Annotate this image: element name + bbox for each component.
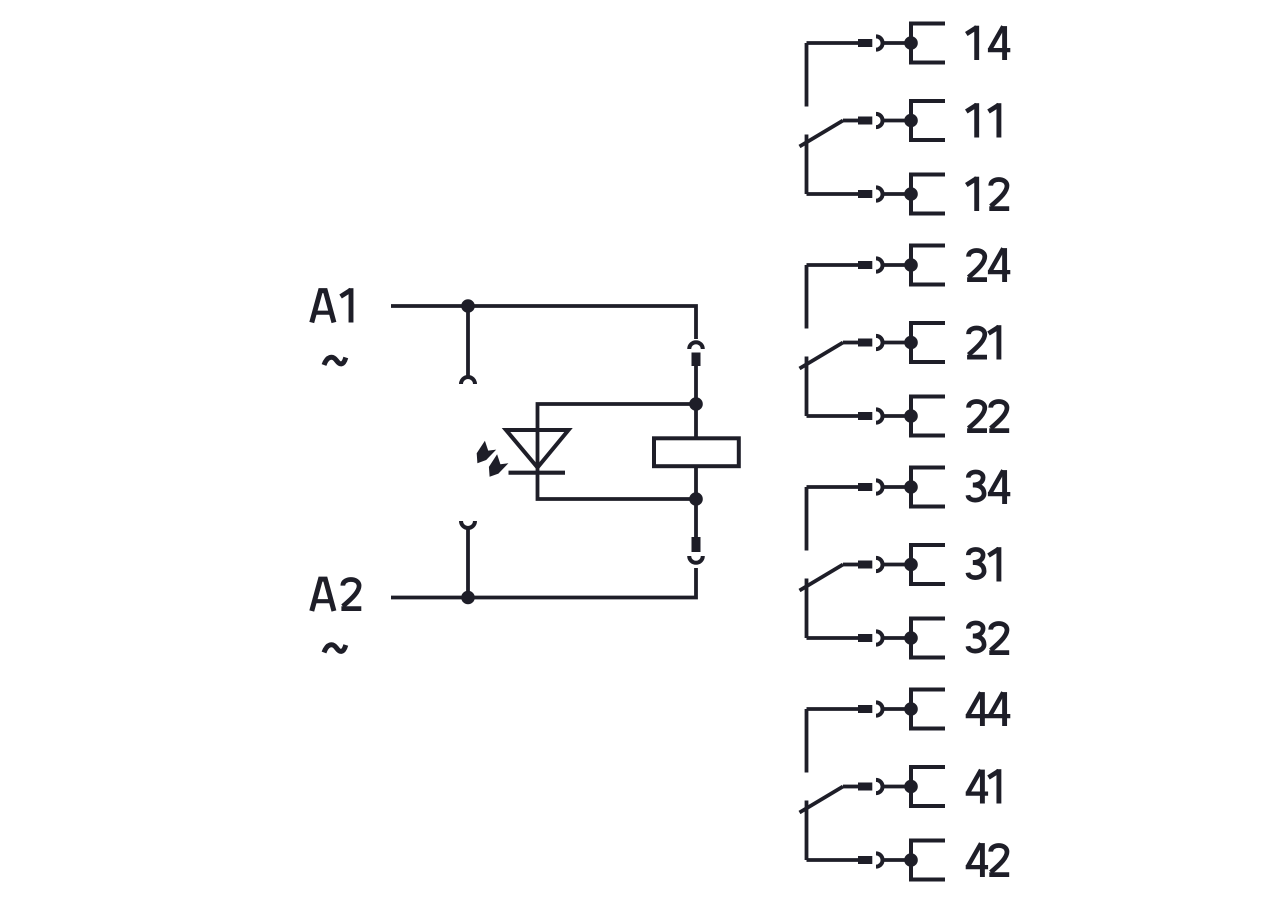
plug pin terminal 34 — [858, 483, 872, 491]
terminal bracket 42 — [911, 841, 945, 880]
terminal label A1 — [312, 288, 351, 322]
plug-in socket symbol (A1 base side) — [461, 377, 475, 384]
contact group 41: common-to-NC vertical wire — [805, 801, 809, 861]
socket terminal 12 — [876, 187, 883, 200]
terminal bracket 14 — [911, 24, 945, 63]
plug pin terminal 42 — [858, 856, 872, 864]
wire socket to junction 34 — [883, 485, 911, 489]
contact group 31: common-to-NC vertical wire — [805, 579, 809, 639]
contact group 21: NO branch stub wire — [805, 265, 809, 329]
wire bottom node to pin — [694, 499, 698, 537]
terminal label 22 — [967, 401, 1009, 430]
junction dot on A2 wire — [461, 591, 475, 605]
wire terminal 42 — [807, 858, 859, 862]
contact group 11: NO branch stub wire — [805, 43, 809, 107]
plug-in pin (coil circuit bottom) — [692, 537, 701, 552]
wire terminal 41 — [843, 785, 858, 789]
plug pin terminal 32 — [858, 634, 872, 642]
junction dot terminal 12 — [904, 187, 918, 201]
wire terminal 34 — [807, 485, 859, 489]
plug-in pin (coil circuit top) — [692, 353, 701, 367]
wire socket to junction 14 — [883, 41, 911, 45]
wire socket to junction 11 — [883, 119, 911, 123]
plug pin terminal 12 — [858, 190, 872, 198]
AC symbol ~ under A2 — [324, 645, 346, 653]
wire terminal 22 — [807, 414, 859, 418]
socket terminal 14 — [876, 36, 883, 49]
junction dot terminal 22 — [904, 409, 918, 423]
wire pin to top node — [694, 366, 698, 404]
socket terminal 21 — [876, 336, 883, 349]
contact group 11: movable contact arm — [800, 121, 844, 147]
wire socket to junction 21 — [883, 341, 911, 345]
wire terminal 44 — [807, 707, 859, 711]
junction dot terminal 32 — [904, 631, 918, 645]
socket terminal 34 — [876, 480, 883, 493]
socket terminal 44 — [876, 702, 883, 715]
socket terminal 24 — [876, 258, 883, 271]
wire terminal 11 — [843, 119, 858, 123]
plug pin terminal 31 — [858, 561, 872, 569]
terminal label 44 — [966, 692, 1011, 726]
wire LED branch loop — [538, 404, 697, 499]
plug pin terminal 22 — [858, 412, 872, 420]
socket terminal 41 — [876, 780, 883, 793]
terminal label 11 — [966, 103, 999, 137]
terminal label 42 — [966, 843, 1010, 877]
terminal label 24 — [967, 248, 1010, 282]
wire terminal 14 — [807, 41, 859, 45]
junction dot terminal 31 — [904, 558, 918, 572]
wire socket to junction 24 — [883, 263, 911, 267]
junction node bottom — [689, 492, 703, 506]
wire terminal 32 — [807, 636, 859, 640]
wire socket to junction 22 — [883, 414, 911, 418]
terminal bracket 22 — [911, 397, 945, 436]
wire terminal 24 — [807, 263, 859, 267]
terminal label 41 — [966, 769, 999, 803]
contact group 31: movable contact arm — [800, 565, 844, 591]
wire terminal 21 — [843, 341, 858, 345]
socket terminal 11 — [876, 114, 883, 127]
wire terminal 12 — [807, 192, 859, 196]
terminal label 31 — [968, 547, 999, 581]
terminal bracket 44 — [911, 690, 945, 729]
contact group 21: common-to-NC vertical wire — [805, 357, 809, 417]
wire stub A2 to base contact — [466, 528, 470, 598]
socket terminal 42 — [876, 853, 883, 866]
wire A1 to coil plug-in — [391, 306, 696, 339]
terminal bracket 12 — [911, 175, 945, 214]
contact group 11: common-to-NC vertical wire — [805, 135, 809, 195]
terminal bracket 34 — [911, 468, 945, 507]
AC symbol ~ under A1 — [324, 357, 346, 365]
wire A2 to coil plug-in — [391, 568, 696, 598]
junction dot terminal 24 — [904, 258, 918, 272]
wire through coil — [694, 404, 698, 499]
socket terminal 31 — [876, 558, 883, 571]
plug-in socket symbol (A2 base side) — [461, 521, 475, 528]
wire socket to junction 12 — [883, 192, 911, 196]
plug pin terminal 11 — [858, 117, 872, 125]
wire socket to junction 31 — [883, 563, 911, 567]
LED cathode bar — [509, 471, 566, 475]
terminal bracket 11 — [911, 101, 945, 140]
junction dot terminal 11 — [904, 114, 918, 128]
LED triangle (anode) — [506, 430, 569, 468]
terminal bracket 24 — [911, 246, 945, 285]
junction dot terminal 21 — [904, 336, 918, 350]
terminal bracket 21 — [911, 323, 945, 362]
terminal bracket 32 — [911, 619, 945, 658]
plug pin terminal 24 — [858, 261, 872, 269]
terminal label 32 — [968, 623, 1009, 653]
socket terminal 22 — [876, 409, 883, 422]
contact group 31: NO branch stub wire — [805, 487, 809, 551]
junction dot terminal 41 — [904, 780, 918, 794]
junction dot terminal 42 — [904, 853, 918, 867]
wire socket to junction 32 — [883, 636, 911, 640]
wire socket to junction 42 — [883, 858, 911, 862]
plug pin terminal 41 — [858, 783, 872, 791]
contact group 41: movable contact arm — [800, 787, 844, 813]
plug-in socket symbol (coil circuit bottom) — [689, 556, 703, 563]
wire socket to junction 41 — [883, 785, 911, 789]
junction dot terminal 34 — [904, 480, 918, 494]
terminal bracket 41 — [911, 767, 945, 806]
socket terminal 32 — [876, 631, 883, 644]
terminal label 12 — [966, 177, 1009, 211]
plug pin terminal 44 — [858, 705, 872, 713]
terminal label 34 — [968, 470, 1010, 504]
wire stub A1 to base contact — [466, 306, 470, 377]
LED light arrow 1 — [477, 441, 497, 464]
plug-in socket symbol (coil circuit top) — [689, 342, 703, 349]
contact group 21: movable contact arm — [800, 343, 844, 369]
contact group 41: NO branch stub wire — [805, 709, 809, 773]
wire terminal 31 — [843, 563, 858, 567]
LED light arrow 2 — [489, 454, 509, 477]
junction dot terminal 14 — [904, 36, 918, 50]
terminal label 21 — [967, 325, 999, 359]
plug pin terminal 21 — [858, 339, 872, 347]
terminal label A2 — [312, 579, 362, 611]
junction dot on A1 wire — [461, 299, 475, 313]
terminal label 14 — [966, 26, 1010, 60]
wire socket to junction 44 — [883, 707, 911, 711]
terminal bracket 31 — [911, 545, 945, 584]
plug pin terminal 14 — [858, 39, 872, 47]
relay coil — [654, 438, 739, 466]
junction node top — [689, 397, 703, 411]
junction dot terminal 44 — [904, 702, 918, 716]
